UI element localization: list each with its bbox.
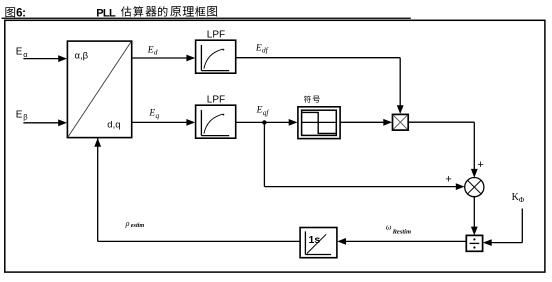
svg-text:Restim: Restim	[392, 228, 411, 235]
svg-text:E: E	[16, 47, 23, 58]
svg-text:df: df	[262, 46, 269, 55]
svg-text:estim: estim	[131, 222, 145, 229]
svg-text:α,β: α,β	[75, 51, 89, 62]
svg-text:ω: ω	[386, 223, 392, 232]
svg-text:1s: 1s	[309, 234, 321, 246]
svg-text:E: E	[256, 106, 263, 116]
svg-text:+: +	[477, 159, 483, 171]
svg-text:β: β	[23, 113, 28, 122]
svg-text:LPF: LPF	[207, 30, 225, 41]
svg-text:E: E	[255, 43, 262, 53]
svg-text:E: E	[16, 109, 23, 120]
svg-text:qf: qf	[263, 108, 270, 117]
svg-text:E: E	[148, 109, 155, 119]
svg-text:d,q: d,q	[107, 120, 120, 131]
svg-text:Φ: Φ	[519, 195, 525, 204]
svg-text:α: α	[23, 50, 28, 59]
svg-text:LPF: LPF	[207, 95, 225, 106]
svg-text:+: +	[445, 174, 451, 186]
svg-text:E: E	[147, 45, 154, 55]
svg-text:d: d	[154, 48, 158, 57]
svg-text:ρ: ρ	[125, 219, 130, 228]
svg-text:q: q	[156, 111, 160, 120]
